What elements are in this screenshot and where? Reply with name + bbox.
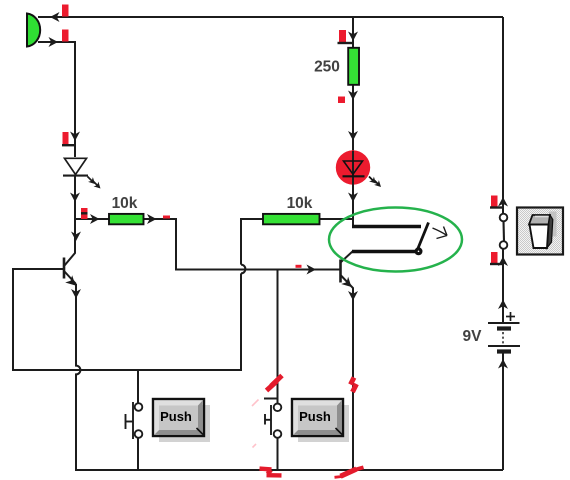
svg-text:Push: Push <box>299 409 331 424</box>
svg-text:10k: 10k <box>287 195 313 212</box>
svg-text:Push: Push <box>160 409 192 424</box>
svg-text:250: 250 <box>314 59 340 76</box>
svg-text:9V: 9V <box>463 328 483 345</box>
svg-text:10k: 10k <box>112 195 138 212</box>
